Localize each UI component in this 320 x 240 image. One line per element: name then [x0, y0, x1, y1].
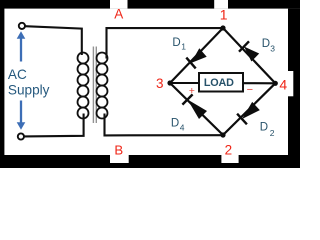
wire: secondary top lead to node 1 — [107, 28, 224, 58]
junction node 1 — [220, 25, 225, 30]
wire: primary bottom lead — [24, 114, 83, 137]
svg-text:A: A — [114, 7, 123, 22]
svg-text:3: 3 — [156, 76, 164, 91]
junction node 3 — [167, 80, 172, 85]
svg-text:AC: AC — [8, 67, 27, 82]
svg-text:1: 1 — [181, 42, 186, 52]
wire: secondary bottom lead to node 2 (net B) — [105, 114, 224, 136]
AC source arrow down — [17, 101, 26, 130]
svg-text:LOAD: LOAD — [204, 77, 234, 89]
diode D1 — [186, 48, 206, 68]
wire: bridge edge node3-node2 — [170, 83, 223, 135]
svg-text:1: 1 — [220, 6, 228, 22]
svg-text:+: + — [189, 85, 195, 97]
wire: primary top lead — [25, 26, 82, 55]
diode D2 — [237, 102, 260, 124]
wire: bridge edge node1-node3 — [170, 28, 223, 83]
wire: bridge edge node4-node2 — [223, 83, 275, 135]
terminal: AC supply bottom — [18, 133, 24, 139]
svg-text:−: − — [247, 84, 253, 96]
svg-text:3: 3 — [270, 44, 275, 54]
transformer T1 primary winding — [78, 53, 89, 119]
wire: LOAD to node4 — [243, 82, 275, 84]
svg-text:D: D — [172, 37, 180, 49]
transformer T1 core — [93, 47, 96, 124]
svg-text:2: 2 — [225, 143, 233, 158]
svg-text:Supply: Supply — [8, 82, 50, 97]
diode D4 — [182, 94, 207, 119]
svg-text:D: D — [260, 122, 268, 134]
wire: node3 to LOAD — [170, 82, 199, 84]
svg-text:B: B — [114, 142, 123, 157]
junction node 4 — [273, 81, 278, 86]
AC source arrow up — [17, 31, 26, 61]
resistor LOAD box — [199, 73, 243, 92]
svg-text:4: 4 — [180, 123, 185, 133]
svg-text:4: 4 — [279, 76, 287, 92]
transformer T1 secondary winding — [97, 53, 108, 119]
svg-text:2: 2 — [270, 128, 275, 138]
junction node 2 — [220, 132, 225, 137]
terminal: AC supply top — [19, 23, 25, 29]
svg-text:D: D — [262, 38, 270, 50]
wire: bridge edge node1-node4 — [223, 28, 275, 83]
diode D3 — [239, 41, 259, 61]
svg-text:D: D — [171, 117, 179, 129]
